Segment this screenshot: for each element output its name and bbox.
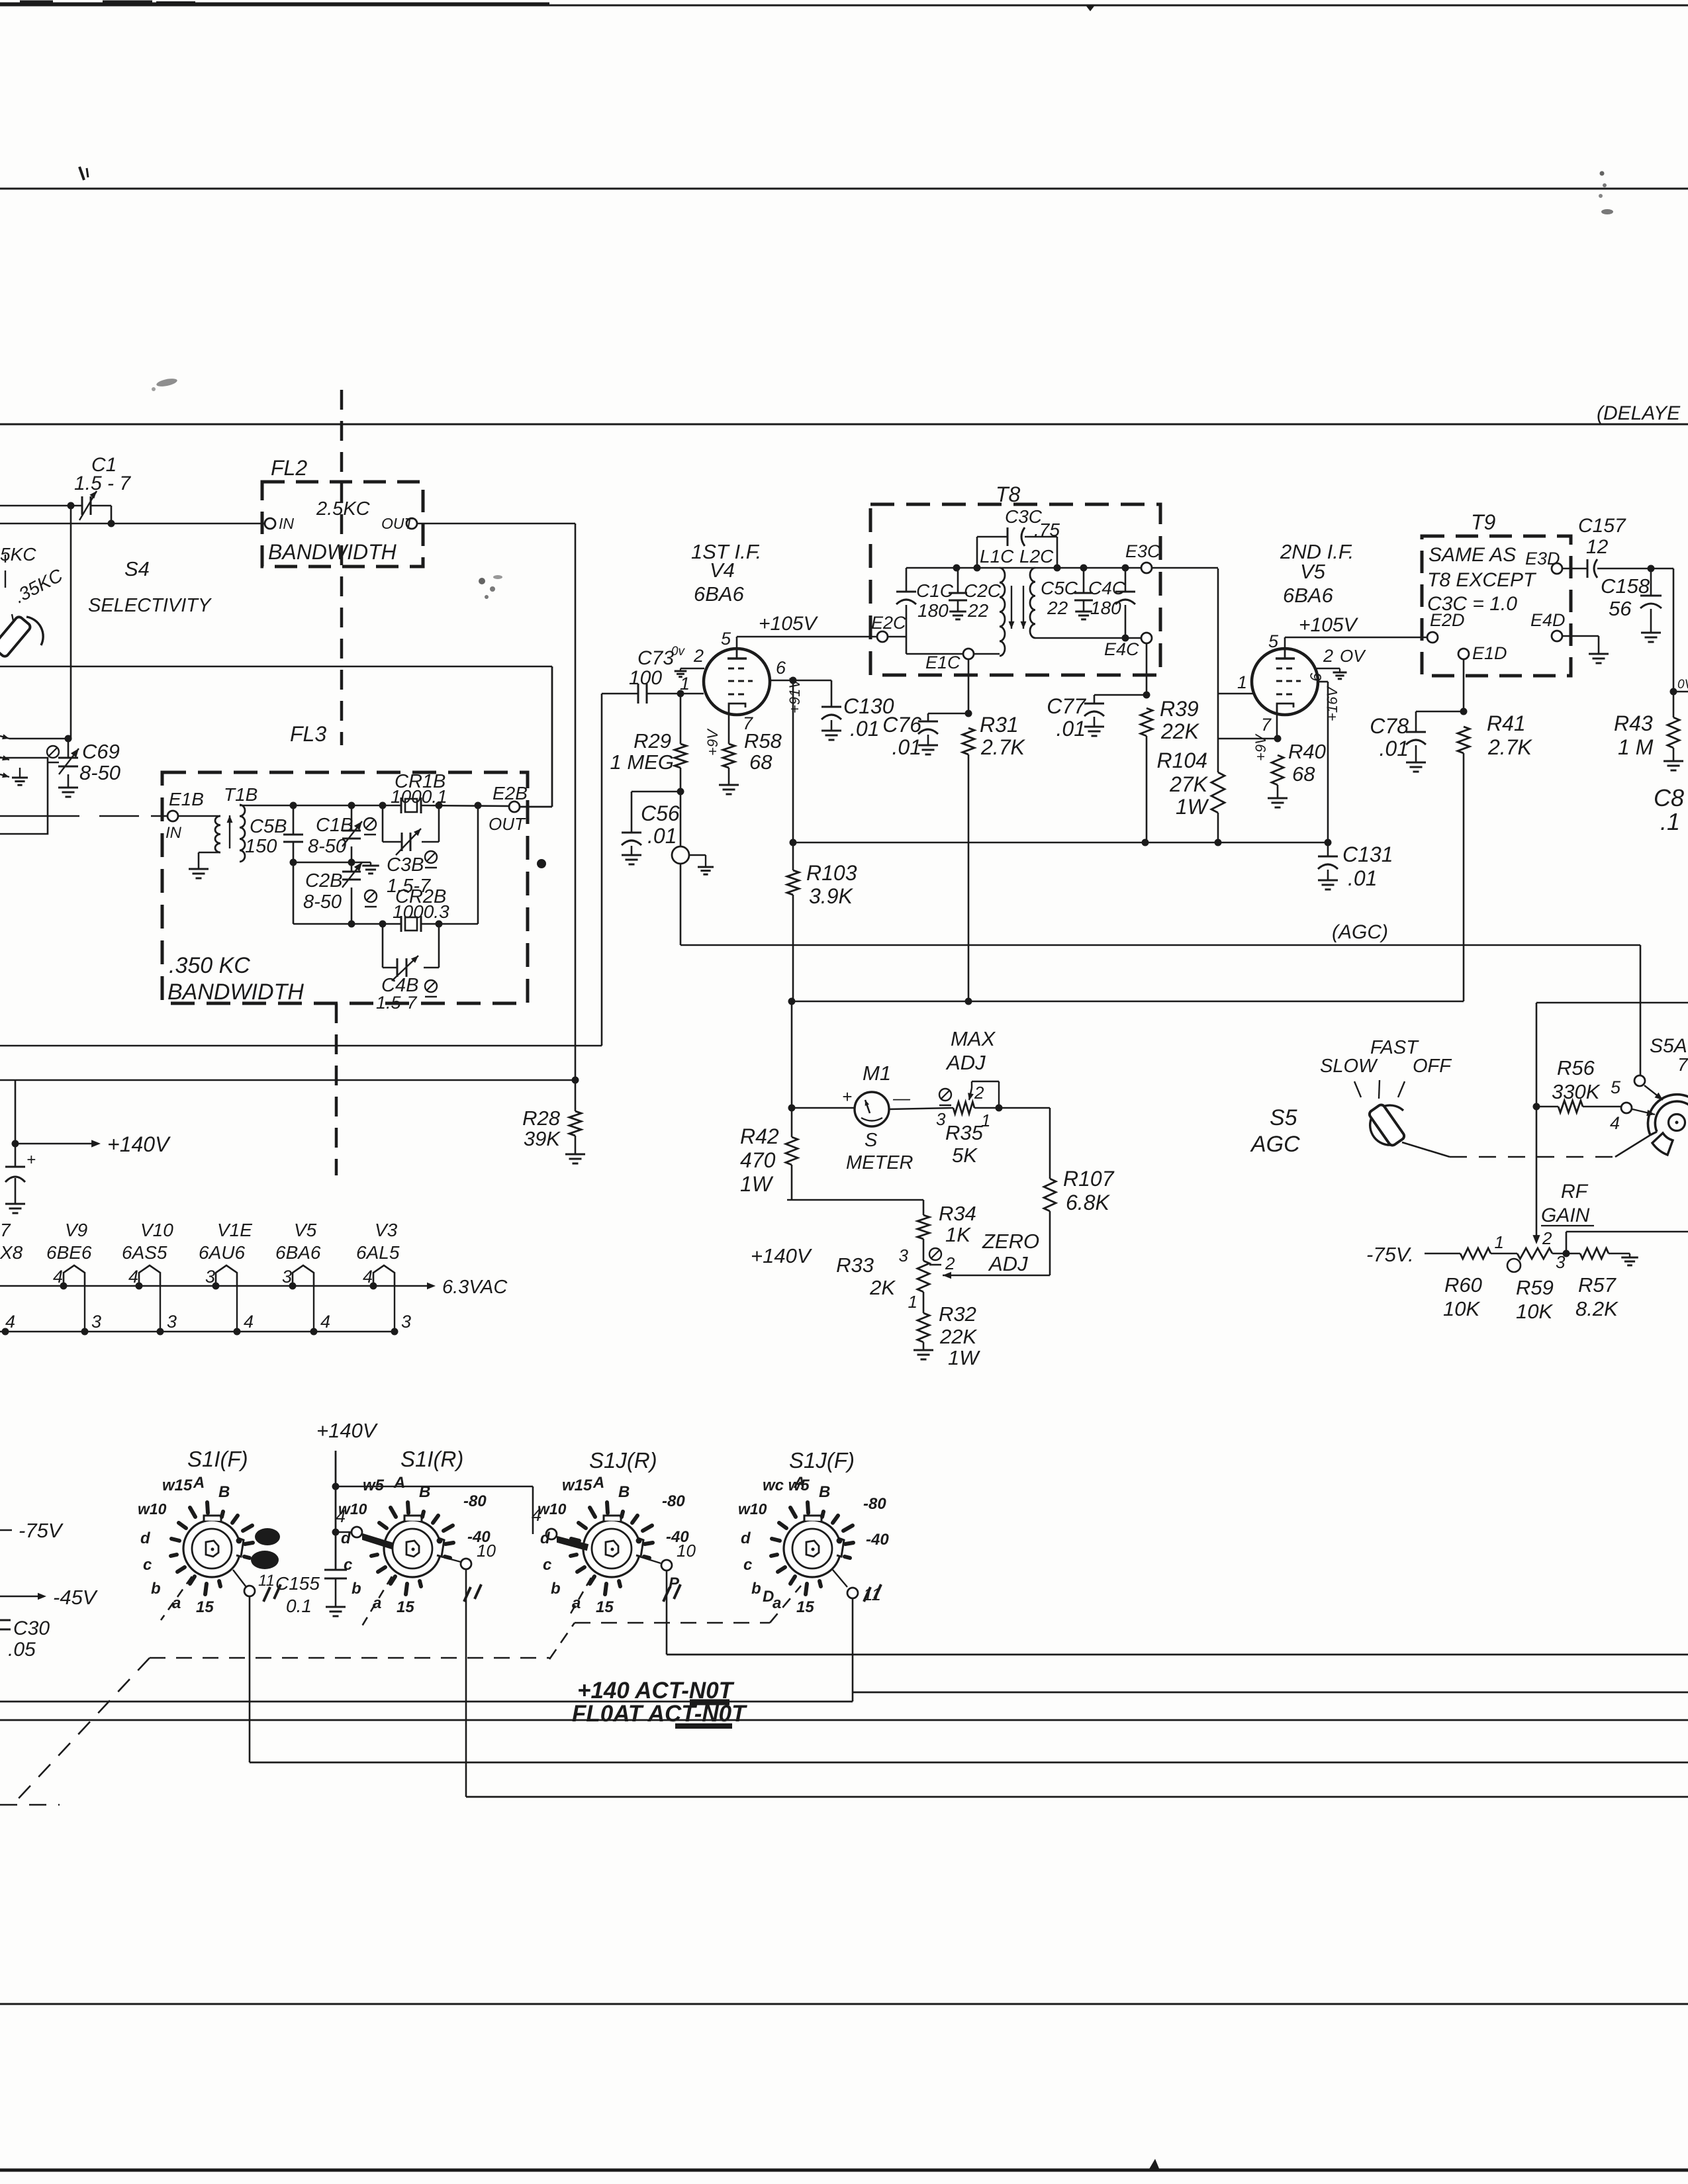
wire: line y=1580 (grid feed) to page edge: [0, 694, 602, 1046]
svg-text:c: c: [143, 1556, 152, 1574]
svg-text:d: d: [140, 1529, 151, 1547]
svg-text:6.8K: 6.8K: [1066, 1191, 1110, 1214]
svg-text:R58: R58: [744, 729, 782, 752]
wire: R59 terminal 3 up and right off page: [1566, 1232, 1688, 1253]
svg-text:4: 4: [1610, 1113, 1620, 1133]
svg-text:c: c: [743, 1556, 752, 1574]
label -75V left edge: [0, 1519, 64, 1542]
svg-text:2.5KC: 2.5KC: [316, 498, 371, 520]
svg-text:.01: .01: [850, 717, 879, 741]
pin 2 V4 with 0V ground: [671, 645, 704, 677]
label MAX ADJ: [945, 1027, 996, 1074]
wire: E1C down to R31 node: [965, 659, 972, 717]
wire: FL3 vertical x=443 mid to bottom rail: [293, 862, 295, 924]
svg-text:+140V: +140V: [107, 1132, 171, 1156]
svg-text:-80: -80: [662, 1492, 685, 1510]
svg-text:OUT: OUT: [381, 515, 415, 532]
svg-text:S5: S5: [1270, 1105, 1297, 1130]
svg-text:1W: 1W: [1176, 795, 1209, 819]
svg-text:3: 3: [401, 1312, 411, 1332]
capacitor C130 .01: [793, 680, 894, 741]
svg-text:15: 15: [596, 1598, 614, 1616]
label C1 value: [74, 454, 131, 494]
terminal S1I(R) pin 10: [441, 1541, 496, 1569]
svg-text:8-50: 8-50: [79, 761, 120, 784]
scan smudge above FL2: [152, 377, 178, 391]
svg-text:METER: METER: [846, 1152, 914, 1173]
svg-text:C3B: C3B: [387, 854, 424, 876]
svg-text:180: 180: [1090, 598, 1121, 618]
pot R59 10K RF GAIN: [1495, 1232, 1580, 1323]
switch S1J(F) rotor: [738, 1474, 889, 1616]
resistor R40 68: [1268, 740, 1326, 807]
capacitor C5B 150: [245, 805, 303, 862]
svg-text:w10: w10: [138, 1500, 167, 1518]
pin 7 V5 cathode: [1252, 713, 1277, 761]
resistor R32 22K 1W: [917, 1292, 980, 1369]
svg-text:E4C: E4C: [1104, 639, 1139, 659]
wire: S1J(R) pin 10 drop to bus: [666, 1570, 668, 1655]
svg-text:C5B: C5B: [250, 816, 287, 837]
label S METER: [846, 1130, 914, 1173]
tube V7 heater (partial at edge): [0, 1220, 23, 1336]
terminal S5A pin 5: [1611, 1075, 1663, 1100]
capacitor C5C 22 with ground: [1041, 568, 1093, 619]
wire: line y=1007 (S4 to E2B riser): [0, 666, 552, 668]
label ZERO ADJ: [982, 1230, 1039, 1275]
label FL2: [271, 456, 307, 480]
resistor R56 330K: [1533, 1056, 1622, 1113]
wire: T8 primary bottom rail: [906, 653, 1000, 655]
svg-text:6: 6: [1307, 672, 1325, 682]
wire: input line y=791 to FL2 IN: [0, 523, 265, 525]
label T8: [996, 482, 1021, 506]
crystal CR2B: [393, 886, 449, 932]
resistor R60 10K: [1443, 1248, 1517, 1320]
svg-text:22: 22: [967, 600, 989, 621]
svg-text:ZERO: ZERO: [982, 1230, 1039, 1253]
wire: E1D down to R41 node: [1460, 659, 1468, 715]
terminal E4C: [1104, 633, 1152, 659]
terminal E2C: [871, 613, 906, 642]
terminal E2D: [1427, 610, 1465, 643]
potentiometer R35 5K MAX ADJ: [936, 1081, 1003, 1167]
svg-text:w15: w15: [562, 1477, 592, 1494]
wire: E3C output to V5 grid: [1152, 568, 1253, 694]
svg-text:100: 100: [629, 667, 662, 689]
resistor R31 2.7K: [962, 713, 1025, 1001]
terminal E4D: [1530, 610, 1566, 641]
svg-text:15: 15: [397, 1598, 414, 1616]
switch S1J(F) label: [789, 1448, 855, 1473]
label S5 AGC: [1250, 1105, 1300, 1157]
wire: meter plus lead: [792, 1087, 855, 1108]
svg-text:B: B: [218, 1483, 230, 1501]
wire: bus y=3028: [0, 2003, 1688, 2005]
svg-text:MAX: MAX: [951, 1027, 996, 1050]
capacitor C73 100 coupling: [602, 647, 680, 704]
svg-text:1W: 1W: [740, 1172, 774, 1196]
svg-text:2: 2: [1542, 1228, 1552, 1248]
svg-text:w5: w5: [363, 1477, 385, 1494]
svg-text:+9V: +9V: [704, 728, 721, 756]
svg-text:.05: .05: [8, 1639, 36, 1661]
transformer T9 box: [1422, 536, 1571, 676]
svg-text:T8: T8: [996, 482, 1021, 506]
wire: riser x=834 down to E2B output: [520, 666, 552, 807]
switch S1J(R) rotor: [538, 1474, 689, 1616]
tube V1E 6AU6 heater: [199, 1220, 254, 1336]
label -75V: [1366, 1243, 1414, 1266]
svg-text:C2B: C2B: [305, 870, 342, 891]
terminal E2B OUT: [489, 783, 528, 834]
svg-text:S: S: [865, 1130, 878, 1151]
resistor R41 2.7K: [1458, 711, 1532, 1001]
wire: R35 to R107: [999, 1108, 1050, 1179]
svg-text:6: 6: [776, 658, 786, 678]
svg-text:C30: C30: [13, 1617, 50, 1639]
svg-text:d: d: [540, 1529, 551, 1547]
svg-text:L2C: L2C: [1019, 546, 1054, 567]
svg-text:BANDWIDTH: BANDWIDTH: [167, 979, 304, 1005]
svg-text:C56: C56: [641, 801, 680, 825]
wire: left input y=764: [0, 505, 71, 507]
scan smear right edge top: [1599, 171, 1613, 215]
svg-text:+9V: +9V: [1252, 733, 1269, 761]
svg-text:IN: IN: [279, 515, 294, 532]
wire: T8 top rail y=858: [906, 565, 1141, 572]
capacitor C2C 22 with ground: [949, 568, 1002, 621]
svg-text:10: 10: [477, 1541, 496, 1561]
wire: y=1116 wafer to C69 node: [9, 738, 68, 740]
stray ink dot: [537, 859, 546, 868]
svg-text:1: 1: [1495, 1232, 1504, 1252]
label (AGC): [1332, 921, 1388, 943]
svg-text:R33: R33: [836, 1253, 874, 1277]
svg-text:C4C: C4C: [1088, 578, 1126, 598]
svg-text:R104: R104: [1157, 749, 1208, 772]
svg-text:2.7K: 2.7K: [1487, 735, 1532, 759]
resistor R57 8.2K: [1575, 1248, 1638, 1320]
svg-text:R40: R40: [1288, 740, 1326, 763]
svg-text:27K: 27K: [1169, 772, 1209, 796]
node: C69 top junction: [65, 735, 72, 743]
svg-text:3: 3: [167, 1312, 177, 1332]
svg-text:-75V: -75V: [19, 1519, 64, 1542]
wire: meter bridge line y=1513: [788, 998, 1464, 1005]
wire: AGC bus y=1428: [680, 944, 1640, 946]
svg-text:-45V: -45V: [53, 1586, 99, 1609]
crystal CR1B: [391, 771, 447, 813]
svg-text:R59: R59: [1516, 1276, 1554, 1299]
svg-text:AGC: AGC: [1250, 1132, 1300, 1157]
svg-text:b: b: [751, 1580, 761, 1598]
svg-text:+140V: +140V: [316, 1419, 379, 1442]
svg-text:E2C: E2C: [871, 613, 906, 633]
svg-text:1: 1: [908, 1292, 917, 1312]
svg-text:6AL5: 6AL5: [356, 1242, 400, 1263]
capacitor C131 .01: [1318, 842, 1393, 890]
wire: S4 wafer contacts at page edge: [0, 734, 9, 778]
svg-text:d: d: [741, 1529, 751, 1547]
svg-text:3: 3: [899, 1246, 909, 1265]
svg-text:5K: 5K: [952, 1144, 978, 1167]
switch S4 position labels .35KC/35KC: [0, 544, 66, 627]
svg-text:15: 15: [796, 1598, 814, 1616]
label (DELAYED: [1597, 402, 1681, 424]
svg-text:-75V.: -75V.: [1366, 1243, 1414, 1266]
svg-text:E3C: E3C: [1125, 541, 1160, 561]
terminal S1J(R) pin 10: [639, 1541, 696, 1570]
switch S1J(R) label: [589, 1448, 657, 1473]
svg-text:1K: 1K: [945, 1223, 971, 1246]
tube V9 6BE6 heater: [46, 1220, 101, 1336]
wire: bus y=2715: [466, 1796, 1688, 1798]
pin 1 V5 grid: [1237, 672, 1247, 692]
potentiometer R33 2K ZERO ADJ: [836, 1246, 955, 1312]
wire: R104 to V5 cathode y=1116: [1218, 735, 1282, 743]
resistor R42 470 1W: [740, 1124, 798, 1200]
capacitor C77 .01: [1047, 694, 1147, 741]
switch S4 knob (partial at page edge): [0, 615, 43, 658]
svg-text:10: 10: [677, 1541, 696, 1561]
svg-text:IN: IN: [165, 824, 182, 842]
wire: RF GAIN feed vertical x=2321: [1532, 1003, 1540, 1244]
svg-text:b: b: [151, 1580, 161, 1598]
svg-text:w15: w15: [162, 1477, 193, 1494]
svg-text:C8: C8: [1654, 784, 1684, 811]
label +140V: [107, 1132, 171, 1156]
svg-text:5: 5: [1611, 1077, 1621, 1097]
capacitor C76 .01: [882, 713, 968, 759]
top border notch: [1086, 5, 1095, 11]
svg-text:1 M: 1 M: [1618, 735, 1654, 759]
resistor R103 3.9K screen dropper: [787, 680, 857, 1001]
ground below R32: [914, 1350, 933, 1359]
terminal S5A pin 4: [1610, 1103, 1655, 1133]
wire: S1I(R) pin 10 drop: [465, 1569, 467, 1797]
svg-text:C76: C76: [882, 713, 921, 737]
svg-text:b: b: [551, 1580, 561, 1598]
svg-text:.350 KC: .350 KC: [169, 953, 250, 978]
svg-text:C1C: C1C: [916, 580, 954, 601]
svg-text:M1: M1: [863, 1062, 891, 1085]
svg-text:FL3: FL3: [290, 722, 326, 746]
wire: bus y=2500: [667, 1654, 1688, 1656]
mechanical linkage diagonal to page corner: [0, 1658, 150, 1805]
svg-text:E2D: E2D: [1430, 610, 1465, 630]
svg-text:R103: R103: [806, 861, 857, 885]
capacitor C1B 8-50 variable: [308, 805, 376, 862]
jack/test point on R29 line: [672, 792, 714, 874]
svg-text:+: +: [842, 1087, 852, 1107]
svg-text:+91V: +91V: [786, 678, 803, 713]
svg-text:8-50: 8-50: [308, 836, 346, 857]
label -45V left edge with arrow: [0, 1586, 99, 1609]
svg-text:0v: 0v: [671, 645, 686, 659]
svg-text:4: 4: [320, 1312, 330, 1332]
label 2ND I.F. V5 6BA6: [1280, 540, 1354, 607]
svg-text:V10: V10: [140, 1220, 173, 1240]
top-left scan marks: [20, 3, 195, 3]
capacitor C3B 1.5-7 variable (across CR1B): [383, 805, 439, 897]
pin 7 V4 cathode / resistor R58 68: [704, 713, 782, 785]
svg-text:39K: 39K: [524, 1127, 561, 1150]
svg-text:E1B: E1B: [169, 789, 204, 809]
svg-text:R39: R39: [1160, 697, 1199, 721]
svg-text:7: 7: [1261, 715, 1272, 735]
node: R29 bottom junction: [677, 788, 684, 796]
switch S1I(R) rotor: [338, 1474, 491, 1616]
svg-text:0V: 0V: [1677, 678, 1688, 692]
svg-text:SAME AS: SAME AS: [1429, 544, 1516, 566]
electrolytic filter capacitor: [5, 1151, 36, 1213]
wire: -75V to R60: [1425, 1253, 1460, 1255]
wire: R42 vertical from bridge to +140V: [788, 1001, 796, 1137]
wire: 6.3VAC filament bus top: [0, 1277, 508, 1298]
coupling arrows in T8: [1009, 586, 1027, 629]
filter FL3 box: [162, 772, 528, 1003]
label +140V (rotary feed): [316, 1419, 379, 1442]
label S5A 7 (cut at edge): [1650, 1035, 1688, 1075]
wire: FL2 OUT to R28 riser: [417, 523, 575, 1111]
svg-text:0.1: 0.1: [286, 1596, 312, 1616]
svg-text:R57: R57: [1578, 1273, 1617, 1297]
svg-text:w10: w10: [338, 1500, 367, 1518]
switch S4 label: [88, 557, 212, 616]
svg-text:S1J(F): S1J(F): [789, 1448, 855, 1473]
capacitor C78 .01: [1370, 711, 1464, 772]
svg-text:GAIN: GAIN: [1541, 1205, 1590, 1226]
page top border line: [0, 3, 1688, 5]
svg-text:68: 68: [749, 751, 773, 774]
svg-text:ADJ: ADJ: [945, 1051, 986, 1074]
svg-text:C157: C157: [1578, 515, 1626, 537]
wire: R107 to R33 wiper: [943, 1272, 1050, 1279]
svg-text:(DELAYE: (DELAYE: [1597, 402, 1681, 424]
label .350 KC BANDWIDTH: [167, 953, 304, 1005]
svg-text:B: B: [819, 1483, 830, 1501]
svg-text:c: c: [543, 1556, 551, 1574]
svg-text:1: 1: [680, 674, 690, 694]
wire: R29 node down to AGC bus: [680, 864, 682, 945]
svg-text:D: D: [763, 1588, 774, 1606]
svg-text:C69: C69: [82, 740, 120, 763]
svg-text:2: 2: [945, 1253, 955, 1273]
wire: +140V branch y=2246 to S1J(R): [336, 1486, 533, 1534]
svg-text:5: 5: [1268, 631, 1279, 651]
node: V4 grid junction: [677, 690, 704, 698]
wire: bus y=2557: [853, 1692, 1688, 1694]
pin 1 V4 grid: [680, 674, 690, 694]
capacitor C30 .05 (partial at page edge): [0, 1617, 50, 1661]
svg-text:+16V: +16V: [1324, 686, 1340, 721]
tube V4: [704, 649, 770, 715]
capacitor C69 (variable 8-50): [58, 739, 79, 788]
capacitor C4C 180: [1088, 568, 1135, 638]
svg-text:R31: R31: [980, 713, 1019, 737]
wire: to R43 node: [1651, 569, 1688, 696]
node: junction C1 left: [68, 502, 75, 510]
capacitor C3C .75 top coupling: [977, 506, 1060, 568]
transformer T1B: [178, 784, 258, 878]
svg-text:S1I(R): S1I(R): [400, 1447, 463, 1471]
label T9: [1471, 510, 1496, 534]
switch S5 knob: [1368, 1103, 1406, 1147]
inductor L2C: [1019, 546, 1054, 638]
svg-text:A: A: [793, 1474, 805, 1492]
label M1: [863, 1062, 891, 1085]
capacitor C157 12: [1562, 515, 1651, 578]
svg-text:4: 4: [244, 1312, 254, 1332]
ground below R28: [565, 1154, 585, 1163]
capacitor C1 (variable 1.5-7): [71, 491, 111, 523]
svg-text:2.7K: 2.7K: [980, 735, 1025, 759]
svg-text:R60: R60: [1444, 1273, 1482, 1297]
svg-text:C5C: C5C: [1041, 578, 1078, 598]
label FL3: [290, 722, 326, 746]
label FL2 2.5KC BANDWIDTH: [268, 498, 397, 564]
wire: S1I(F) pin 11 drop: [249, 1596, 251, 1762]
wire: FL3 mid rail y=1303: [290, 859, 371, 866]
terminal E1B IN: [165, 789, 204, 842]
resistor R43 1M: [1614, 692, 1683, 770]
svg-text:w10: w10: [538, 1500, 567, 1518]
ground below C56: [622, 855, 641, 864]
filter FL2 box: [262, 482, 423, 567]
svg-text:1W: 1W: [948, 1346, 980, 1369]
label 1ST I.F. V4 6BA6: [691, 540, 761, 606]
capacitor C155 0.1: [275, 1570, 347, 1616]
svg-text:1: 1: [1237, 672, 1247, 692]
svg-text:R42: R42: [740, 1124, 779, 1148]
wire: bus y=2599: [0, 1719, 1688, 1721]
wire: bus y=2663: [250, 1762, 1688, 1764]
handwritten note FLOAT ACT-NOT: [572, 1701, 747, 1727]
svg-text:-80: -80: [463, 1492, 487, 1510]
transformer T8 box: [870, 504, 1160, 675]
terminal S1I(F) pin 11: [233, 1570, 275, 1596]
scan smudge right of FL2: [479, 575, 502, 599]
meter M1 movement: [855, 1092, 889, 1126]
terminal S1J(F) pin 11: [833, 1570, 881, 1604]
svg-text:ADJ: ADJ: [988, 1252, 1028, 1275]
svg-text:6BA6: 6BA6: [1283, 584, 1334, 607]
pin 5 V5 plate: [1268, 631, 1285, 651]
resistor R107 6.8K: [1044, 1167, 1115, 1275]
svg-text:7: 7: [1677, 1054, 1688, 1075]
switch S1I(F) rotor: [138, 1474, 281, 1616]
ground FL3 mid rail: [362, 862, 379, 874]
svg-text:2: 2: [974, 1083, 984, 1103]
capacitor C1C 180 (in left rail): [896, 568, 954, 654]
svg-text:V1E: V1E: [217, 1220, 252, 1240]
wire: horizontal bus y=285: [0, 188, 1688, 190]
wire: +140V line to R34: [787, 1200, 923, 1215]
svg-text:V4: V4: [710, 559, 735, 582]
svg-text:E2B: E2B: [492, 783, 528, 803]
svg-text:C158: C158: [1601, 574, 1650, 598]
svg-text:3: 3: [91, 1312, 101, 1332]
svg-text:.01: .01: [1348, 866, 1377, 890]
svg-text:11: 11: [863, 1584, 881, 1604]
svg-text:+: +: [26, 1151, 36, 1169]
svg-text:22: 22: [1047, 598, 1068, 618]
svg-text:6BA6: 6BA6: [275, 1242, 321, 1263]
capacitor C56 .01: [622, 792, 680, 855]
terminal E3D: [1525, 549, 1562, 574]
svg-text:E1C: E1C: [925, 653, 961, 672]
